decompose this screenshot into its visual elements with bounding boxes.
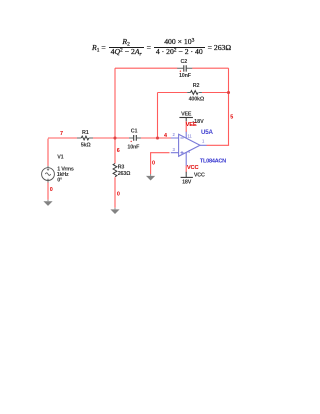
capacitor C2 xyxy=(177,65,192,71)
op-amp input polarity marks xyxy=(180,138,183,154)
svg-text:TL084ACN: TL084ACN xyxy=(200,159,226,165)
wire output horizontal xyxy=(207,144,230,146)
formula R1 = R2/(4Q^2-2Ar) = 400e3/(4*20^2-2*40) = 263 ohm xyxy=(92,37,231,57)
svg-text:7: 7 xyxy=(60,131,63,137)
wire C2 loop top horizontal xyxy=(115,67,229,69)
op-amp U5A triangle xyxy=(171,132,207,166)
svg-text:V1: V1 xyxy=(57,155,63,161)
svg-text:1: 1 xyxy=(202,139,205,144)
junction node 6 xyxy=(113,136,116,139)
svg-text:VCC: VCC xyxy=(187,165,200,171)
resistor R1 xyxy=(77,136,93,140)
svg-text:11: 11 xyxy=(187,134,192,139)
svg-text:U5A: U5A xyxy=(201,129,214,136)
ground below R3 xyxy=(110,208,119,214)
svg-text:263Ω: 263Ω xyxy=(118,171,131,177)
wire R2 loop horizontal xyxy=(158,92,229,94)
svg-text:0°: 0° xyxy=(57,177,62,183)
svg-text:10nF: 10nF xyxy=(127,145,140,151)
svg-text:0: 0 xyxy=(117,191,120,197)
svg-text:C1: C1 xyxy=(131,129,138,135)
op-amp pin numbers xyxy=(172,132,205,154)
svg-text:0: 0 xyxy=(152,161,155,167)
resistor R3 xyxy=(113,164,117,177)
svg-text:10nF: 10nF xyxy=(179,73,192,79)
svg-text:VEE: VEE xyxy=(181,112,192,118)
ground below V1 xyxy=(43,200,52,206)
wire plus input to ground xyxy=(151,153,170,174)
svg-text:VEE: VEE xyxy=(186,122,197,128)
svg-text:5kΩ: 5kΩ xyxy=(81,143,92,149)
junction node 4 xyxy=(156,136,159,139)
VCC power symbol xyxy=(181,172,205,186)
svg-text:4: 4 xyxy=(188,149,191,154)
svg-text:VCC: VCC xyxy=(194,172,205,178)
svg-text:2: 2 xyxy=(172,132,175,137)
ground at plus input xyxy=(146,174,155,181)
VEE power symbol xyxy=(179,112,204,125)
wire R3 branch vertical xyxy=(114,138,116,208)
svg-text:R3: R3 xyxy=(118,165,125,171)
wire VEE red segment xyxy=(185,121,187,132)
svg-text:C2: C2 xyxy=(181,59,188,65)
wire R2 loop left vertical xyxy=(157,93,159,139)
wire C2 loop left vertical xyxy=(114,68,116,138)
wire V1 bottom to ground xyxy=(47,180,49,183)
wire VCC red segment xyxy=(185,166,187,173)
svg-text:400kΩ: 400kΩ xyxy=(189,97,205,103)
svg-text:18V: 18V xyxy=(182,180,192,186)
resistor R2 xyxy=(187,91,202,95)
capacitor C1 xyxy=(129,135,141,141)
svg-text:4: 4 xyxy=(164,133,167,139)
wire V1 top vertical xyxy=(47,139,49,166)
source V1 xyxy=(42,168,55,181)
svg-text:6: 6 xyxy=(117,148,120,154)
junction node 5 R2 tap xyxy=(227,91,230,94)
wire right vertical node 5 xyxy=(228,68,230,145)
svg-text:R2: R2 xyxy=(193,83,200,89)
svg-text:5: 5 xyxy=(230,114,233,120)
svg-text:3: 3 xyxy=(172,147,175,152)
wire main input horizontal node7/6/4 xyxy=(48,137,172,139)
svg-text:0: 0 xyxy=(50,187,53,193)
svg-text:R1: R1 xyxy=(82,130,89,136)
